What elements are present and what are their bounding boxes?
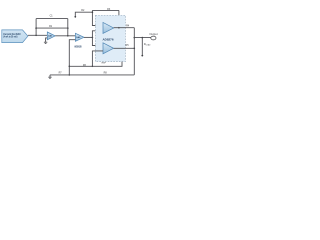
svg-text:R4: R4 [126,24,130,27]
wire: bottom output rail [50,74,134,76]
resistor R1 (feedback, middle branch) [36,25,68,28]
IC AD8276 dashed package box [95,15,125,61]
svg-text:LOAD: LOAD [146,44,151,47]
node: A1 output feedback junction [118,27,120,29]
op-amp A2 (bottom half of AD8276) [103,43,114,54]
node: junction A2 + stub with REF wire [92,66,94,68]
node: end dot of sense stub [74,16,76,18]
svg-text:R7: R7 [59,71,63,74]
node: junction of R1 branch with right vertical [67,27,69,29]
op-amp A1 (top half of AD8276) [103,23,114,34]
wire: return vertical from A1 output down to bottom rail [133,28,135,75]
svg-text:R8: R8 [104,72,108,75]
svg-text:AD8628: AD8628 [74,45,82,48]
wire: A2 non-inverting input stub from REF wire [92,51,103,66]
node: junction output wire with return vertical [134,37,136,39]
wire: top feedback vertical into A1 output [118,10,120,27]
wire: A2 output exits box to return vertical [114,47,135,49]
svg-text:R1: R1 [49,25,53,28]
op-amp U2 (buffer) [75,33,84,41]
ground (U1 non-inverting input) [44,42,47,43]
output terminal [149,33,158,40]
wire: U2 inverting input sense line down to bottom rail [69,40,75,75]
node: junction of R1 branch with left vertical [35,27,37,29]
wire: U1 non-inverting input stub to ground [46,38,48,42]
DAC block: Current Out DAC (4 mA to 20 mA) [2,30,28,43]
ground (bottom rail) [48,77,51,78]
wire: U1 output bus to op-amp U2 non-inverting input [55,35,75,37]
svg-text:Output: Output [149,33,158,36]
node: feedback tap junction on DAC bus [35,35,37,37]
node: U2 output junction [92,37,94,39]
wire: U2 output [84,36,92,38]
capacitor C1 (feedback, top branch) [36,14,68,18]
wire: rail left end stub down to ground [49,75,51,77]
wire: feedback loop right vertical down to U1 output bus [67,19,69,36]
node: junction output wire with load branch [142,37,144,39]
node: tee junction on feedback vertical [92,11,94,13]
node: junction sense vertical with bottom rail [69,74,71,76]
wire: A1 inverting input feedback stub [92,10,103,25]
wire: feedback loop left vertical [35,19,37,36]
op-amp U1 (I-to-V converter) [47,32,55,40]
wire: A1 output across box edge to return vertical [114,27,135,29]
wire: output node to terminal [134,37,151,39]
svg-text:(4 mA to 20 mA): (4 mA to 20 mA) [3,35,17,39]
node: junction sense vertical with REF wire [69,66,71,68]
resistor R2 (sense wire, top left) [75,9,92,16]
resistor R3 (feedback top wire) [92,8,119,11]
svg-text:REF: REF [102,62,107,64]
node: junction of feedback network with U1 output [67,35,69,37]
wire: U2 output up-jog into A1 non-inverting input [92,31,103,38]
wire: U2 output down-jog into A2 inverting input [92,37,103,45]
wire: REF net from sense vertical to box REF pin [69,62,122,67]
svg-text:R5: R5 [125,44,129,47]
wire: DAC output bus to op-amp U1 inverting input [28,34,47,36]
resistor RLOAD branch [141,38,151,57]
svg-text:AD8276: AD8276 [103,38,115,42]
svg-text:C1: C1 [50,14,54,17]
node: junction A2 output with return vertical [134,48,136,50]
